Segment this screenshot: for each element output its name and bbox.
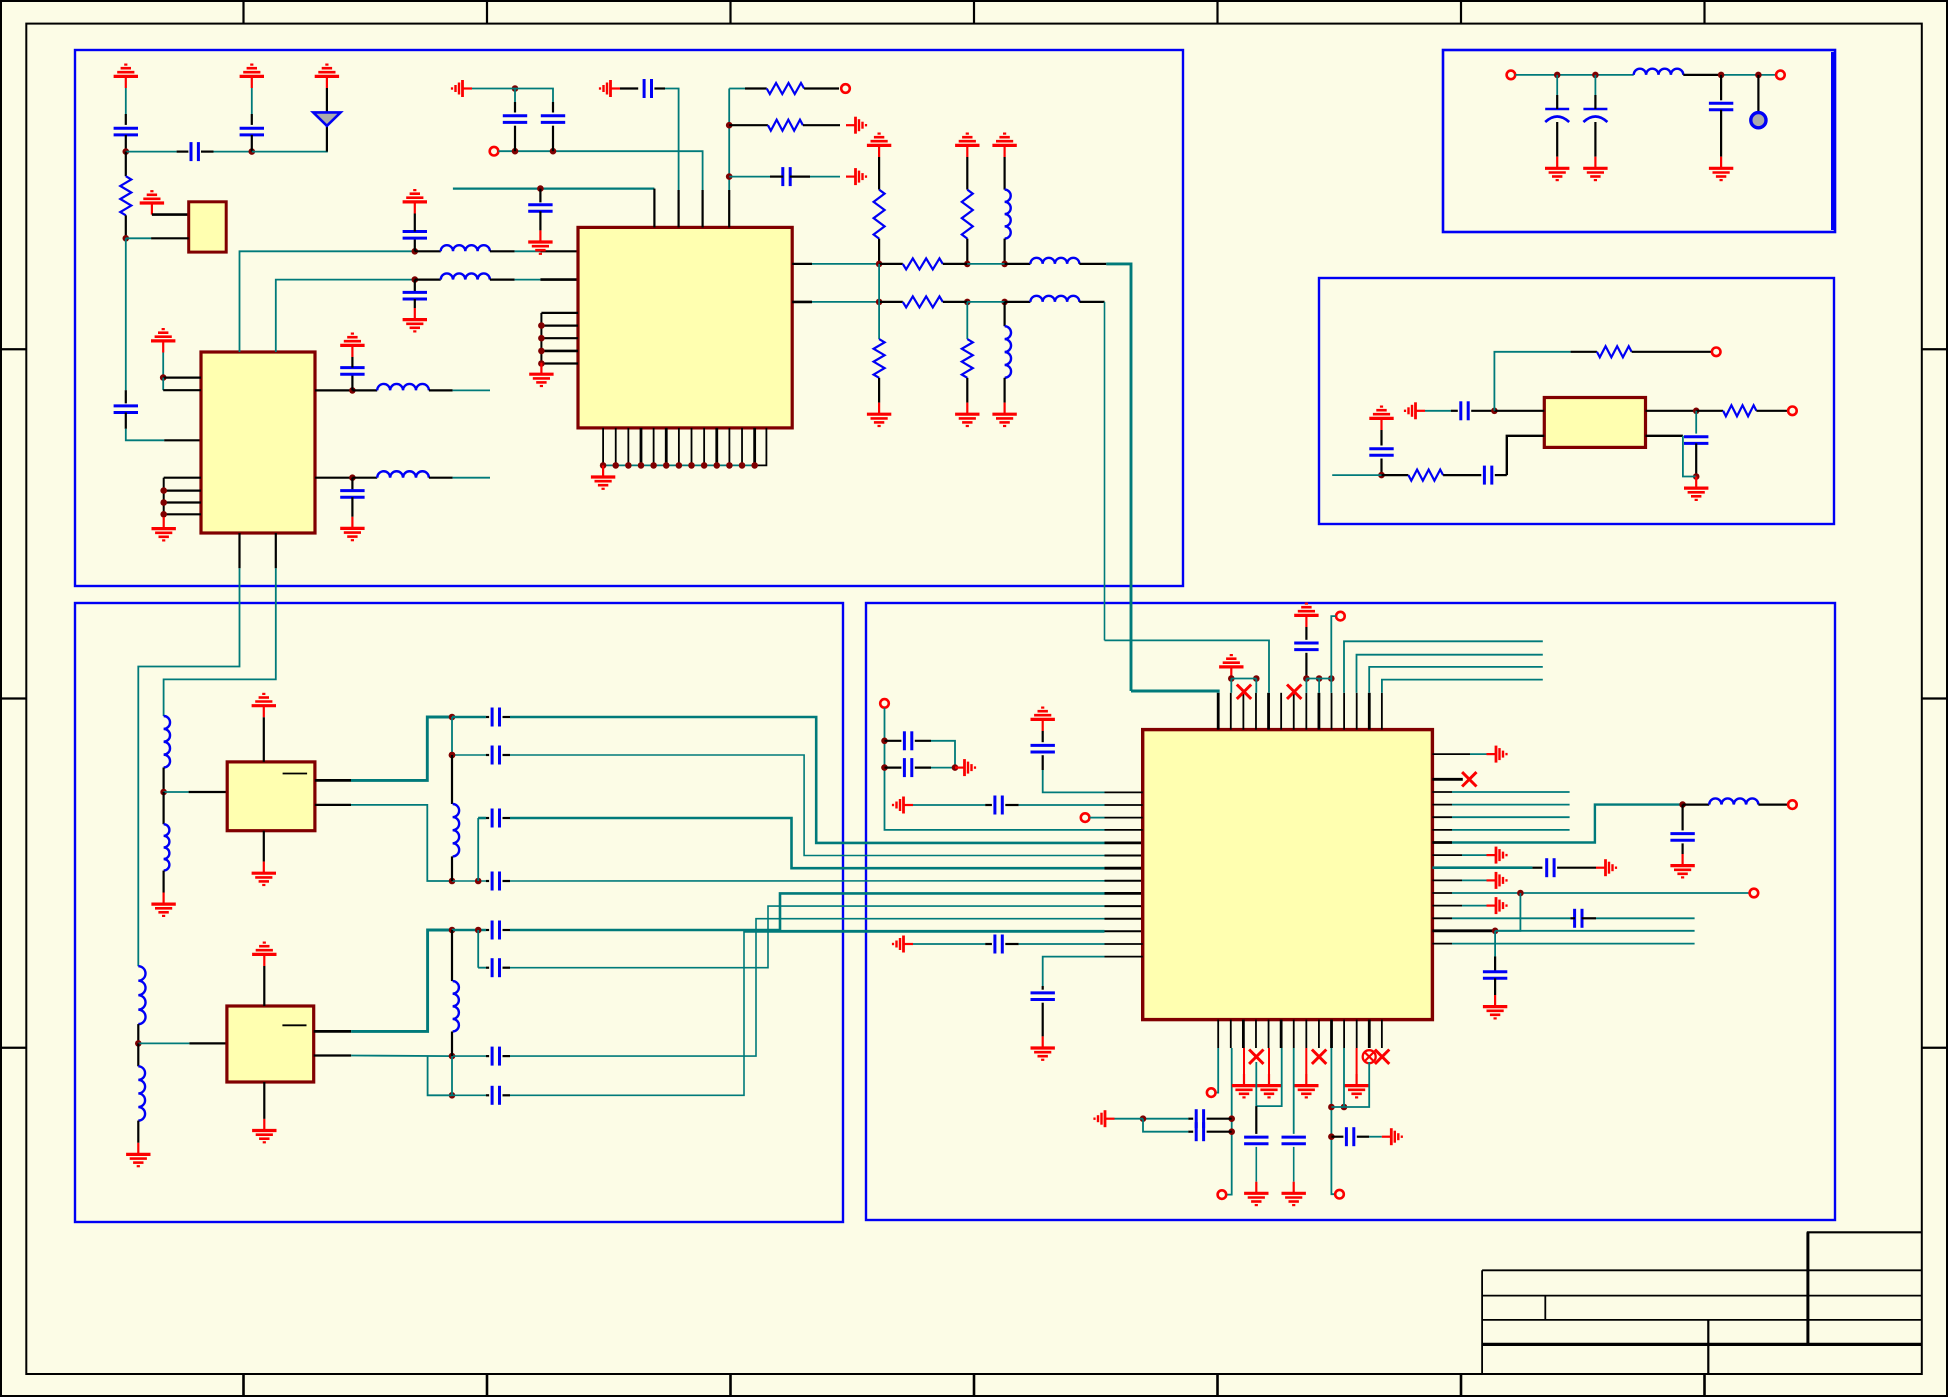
junction node N1 — [123, 148, 130, 155]
lead U7 bottom pin 8 — [1305, 1020, 1307, 1048]
resistor R1 — [120, 176, 131, 215]
lead U7 right pin y792 — [1432, 791, 1452, 793]
lead C26 bottom — [1681, 843, 1683, 854]
port BUF OUT1 — [1712, 348, 1721, 357]
border tick bottom 1 — [242, 1374, 245, 1397]
inductor L2 — [377, 471, 429, 477]
lead R1 top — [125, 152, 127, 177]
junction node N15 — [876, 261, 883, 268]
wire gnd stem bottom pin12 — [1356, 1048, 1358, 1074]
capacitor row C — [492, 872, 499, 891]
earth ground G15 — [1382, 1128, 1402, 1145]
power port P12 VCC — [1294, 604, 1318, 627]
wire stub right pin 4 — [1452, 804, 1570, 806]
inductor L10 (vertical) — [164, 716, 170, 768]
earth ground G7 — [955, 759, 975, 776]
lead C28 left — [1570, 917, 1575, 919]
junction node N10 — [512, 148, 519, 155]
wire dot c down — [1305, 679, 1307, 693]
border tick top 2 — [486, 0, 488, 24]
wire C34 to gnd — [1369, 1136, 1382, 1138]
lead C14 top — [1720, 75, 1722, 100]
IC U4 (buffer amp) — [1544, 398, 1645, 448]
lead C24 left — [985, 943, 992, 945]
lead U7 right pin 13 — [1432, 917, 1452, 919]
wire pin11 down — [1343, 1048, 1345, 1107]
junction row A — [449, 714, 456, 721]
earth ground G8 — [893, 936, 913, 953]
lead U3 pin T1 — [653, 189, 655, 228]
border tick bottom 4 — [973, 1374, 976, 1397]
lead U5 pin R1 — [315, 779, 351, 782]
lead Cpol 1595.4 top — [1594, 95, 1596, 109]
resistor R2 — [767, 83, 804, 94]
wire VCC stem to C1 — [125, 88, 127, 114]
power port VCC col 967.3 — [955, 134, 979, 157]
no-connect X U7 bottom pin4 — [1249, 1050, 1263, 1064]
capacitor C18 — [1684, 437, 1708, 444]
lead main IC pin left D — [1105, 892, 1143, 895]
port TEST1 — [841, 84, 850, 93]
junction row F — [449, 1092, 456, 1099]
no-connect X U7 right pin2 — [1462, 772, 1476, 786]
ground U3 left group — [529, 363, 553, 386]
wire row C to bundle — [510, 880, 1105, 882]
wire C28 stub — [1596, 917, 1695, 919]
capacitor C9 — [528, 205, 552, 212]
lead C24 right — [1005, 943, 1018, 945]
resistor col 967.3 lower — [962, 339, 973, 378]
ground at C32 — [1244, 1182, 1268, 1205]
border tick top 5 — [1216, 0, 1218, 24]
U6 internal pin overline — [282, 1024, 306, 1026]
lead Cpol 1557.2 top — [1556, 95, 1558, 109]
border tick right 1 — [1922, 348, 1948, 350]
capacitor C31 — [1196, 1122, 1203, 1141]
wire N4 down — [162, 378, 164, 391]
junction U3 bus dot 4 — [638, 462, 645, 469]
no-connect X U7 bottom pin9 — [1312, 1050, 1326, 1064]
wire right feed — [728, 89, 730, 191]
junction U3 bus dot 1 — [600, 462, 607, 469]
lead R1 bottom — [125, 215, 127, 238]
ground at C9 — [528, 230, 552, 253]
lead C14 bottom — [1720, 110, 1722, 157]
capacitor row H — [492, 958, 499, 977]
wire pin10 down — [1331, 1048, 1335, 1194]
wire top-right step 2 — [1357, 655, 1543, 693]
title block right thick edge — [1806, 1232, 1809, 1344]
resistor col 879.1 upper — [874, 190, 885, 239]
wire row2 to main IC — [1104, 302, 1106, 641]
ground at C29 — [1483, 995, 1507, 1018]
wire pin r13 to C28 — [1452, 917, 1570, 919]
lead L4 right — [490, 279, 515, 281]
lead cap row G left — [486, 817, 489, 819]
capacitor C13 — [783, 167, 790, 186]
lead R7 right — [1443, 474, 1481, 476]
wire pin r1 gnd — [1470, 753, 1487, 755]
junction node N26 — [1378, 472, 1385, 479]
wire thick feed to U7 pin1 — [1131, 691, 1218, 693]
lead cap row D right — [503, 929, 511, 931]
lead U3 pin L1 — [540, 250, 578, 252]
port ANT OUT — [1776, 71, 1785, 80]
port CLK — [1336, 612, 1345, 621]
ground U7 bottom pin3 — [1232, 1074, 1256, 1097]
junction U3 tie dot 4 — [538, 360, 545, 367]
border tick left 2 — [0, 697, 26, 699]
wire U2 B1 to L-chain — [138, 568, 239, 966]
inductor L7 — [1030, 296, 1079, 302]
capacitor C10 — [503, 116, 527, 123]
lead col 967 to row1 — [966, 239, 968, 264]
lead U5 top pin — [263, 717, 265, 762]
lead cap row F left — [486, 1094, 489, 1096]
lead C1 top — [125, 114, 127, 125]
lead cap row H right — [503, 967, 511, 969]
wire row G drop — [477, 818, 479, 881]
lead C3 left — [177, 151, 189, 153]
lead U3 pin T3 — [701, 190, 703, 227]
lead C4 bottom — [125, 413, 127, 429]
power port P5 VCC — [151, 329, 175, 352]
block box top-left (RF front end) — [75, 50, 1183, 586]
border tick bottom 7 — [1703, 1374, 1706, 1397]
wire N3 to U1 pin 2 — [126, 237, 151, 239]
lead C13 left — [770, 176, 783, 178]
earth ground G6 — [893, 797, 913, 814]
wire top-right step 1 — [1344, 641, 1543, 693]
capacitor row B — [492, 746, 499, 765]
lead U3 bottom pin 1 — [602, 428, 604, 466]
junction U3 bus dot 2 — [612, 462, 619, 469]
capacitor C16 — [1369, 449, 1393, 456]
power port P1 VCC — [114, 65, 138, 88]
port RST — [1081, 813, 1090, 822]
inductor L5 (vertical) — [1005, 190, 1011, 239]
lead cap row A left — [486, 716, 489, 718]
power port P4 (bias) — [140, 191, 164, 214]
port ANT IN — [1507, 71, 1516, 80]
wire U2 pin T1 to row — [240, 251, 415, 352]
lead L7 left — [1005, 301, 1031, 303]
lead L9 right — [1683, 74, 1721, 76]
lead U1 pin 1 — [152, 213, 189, 216]
junction node N35 — [1517, 890, 1524, 897]
inductor L3 — [441, 245, 490, 251]
title block cell divider v2 — [1544, 1296, 1546, 1320]
lead L3 right — [490, 250, 515, 252]
junction U7 top dot e — [1328, 675, 1335, 682]
lead U7 top pin 10 — [1331, 693, 1333, 730]
lead C33 bottom — [1293, 1147, 1295, 1182]
wire row B to cap — [452, 754, 486, 756]
lead L2 right — [429, 477, 453, 479]
lead U7 right pin 11 — [1432, 892, 1452, 894]
capacitor C19 — [1294, 643, 1318, 650]
lead diode D1 top — [326, 88, 328, 112]
lead U7 right pin 2 — [1432, 778, 1462, 781]
resistor R4 — [903, 258, 943, 269]
lead U7 right pin y817.2 — [1432, 816, 1452, 818]
earth ground G10 — [1487, 847, 1507, 864]
junction U3 tie dot 3 — [538, 348, 545, 355]
wire col 879.1 row to lower R — [878, 264, 880, 339]
wire port row — [499, 151, 703, 190]
no-connect X U7 top pin3 — [1237, 685, 1251, 699]
lead U7 bottom pin 1 — [1217, 1020, 1219, 1048]
ground ant filter 1595.4 — [1583, 157, 1607, 180]
lead R4 right — [943, 263, 968, 265]
lead L1 left — [352, 389, 377, 391]
capacitor C11 — [541, 116, 565, 123]
power port P2 VCC — [240, 65, 264, 88]
power port P13 VCC — [1031, 708, 1055, 731]
port SENSE1 — [1207, 1088, 1216, 1097]
lead U3 bottom pin 7 — [678, 428, 680, 466]
lead C2 bottom — [251, 135, 253, 152]
power port P10 VCC — [252, 943, 276, 966]
wire U3 R1 to N15 — [812, 263, 879, 265]
lead U7 bottom pin 6 — [1280, 1020, 1283, 1048]
lead L10 bottom — [163, 768, 165, 793]
wire U4 pin4 to N28 — [1683, 436, 1696, 477]
lead C6 top — [351, 478, 353, 491]
wire G5 to C15 — [1425, 410, 1451, 412]
wire row D to cap — [452, 929, 486, 932]
wire row H to cap — [478, 967, 486, 969]
lead U3 bottom pin 6 — [665, 428, 668, 466]
lead U7 bottom pin 7 — [1293, 1020, 1295, 1048]
wire U5 R1 to row A — [351, 717, 452, 780]
capacitor C29 — [1483, 972, 1507, 979]
earth ground G9 — [1487, 746, 1507, 763]
lead C16 bottom — [1380, 459, 1382, 476]
port BUF OUT2 — [1788, 407, 1797, 416]
IC U1 (bias regulator) — [189, 202, 227, 252]
wire left rail N3 down — [125, 238, 127, 390]
ground L11 — [151, 893, 175, 916]
lead U3 bottom pin 2 — [615, 428, 617, 466]
lead U7 bottom pin 12 — [1356, 1020, 1358, 1048]
wire C23 right tie — [931, 767, 955, 769]
lead col 967.3 gnd — [966, 378, 968, 403]
lead U7 bottom pin 3 — [1242, 1020, 1245, 1048]
lead U3 pin T2 — [677, 190, 679, 227]
wire C25 to U7 pin — [1043, 957, 1105, 986]
wire U3 bottom bus corner — [755, 428, 767, 466]
wire N14 to C13 — [729, 176, 770, 178]
wire N25 up and to R6 — [1494, 352, 1570, 411]
lead cap row C right — [503, 880, 511, 882]
wire port CLK to dot e — [1331, 616, 1336, 678]
lead C11 top — [552, 102, 554, 113]
lead U3 pin L3 — [541, 312, 578, 314]
lead C21 right — [1005, 804, 1018, 806]
lead U3 pin L2 — [540, 278, 578, 281]
lead cap row D left — [486, 929, 489, 931]
lead R2 right — [804, 87, 839, 89]
inductor L6 — [1030, 258, 1079, 264]
capacitor C28 — [1575, 909, 1582, 928]
earth ground G11 — [1596, 859, 1616, 876]
lead U7 bottom pin 11 — [1343, 1020, 1345, 1048]
IC U5 (driver A) — [227, 762, 315, 831]
capacitor C8 — [403, 292, 427, 299]
wire N19-N20 — [967, 301, 1004, 303]
wire pins4-6 tie — [1255, 1062, 1257, 1106]
wire U6 R2 to row E — [351, 1055, 452, 1058]
inductor L11 (vertical) — [164, 824, 170, 870]
ground at C33 — [1282, 1182, 1306, 1205]
wire N17-N18 — [967, 263, 1004, 265]
lead C23 left — [885, 766, 902, 768]
lead U7 right pin 7 — [1432, 841, 1452, 844]
lead U3 bottom pin 13 — [753, 428, 756, 466]
junction node N31 — [881, 738, 888, 745]
lead C21 left — [985, 804, 992, 806]
wire row F to cap — [452, 1094, 486, 1096]
border tick bottom 6 — [1460, 1374, 1463, 1397]
lead U5 bottom pin — [263, 831, 265, 862]
junction node N2 — [249, 148, 256, 155]
lead C15 left — [1451, 410, 1458, 412]
junction node N4 — [160, 374, 167, 381]
wire stub right pin y829.9 — [1452, 829, 1570, 831]
capacitor row G — [492, 809, 499, 828]
block box bottom-left (driver stages) — [75, 603, 843, 1222]
lead R4 left — [879, 263, 903, 265]
wire stub right pin y792 — [1452, 791, 1570, 793]
lead C2 top — [251, 114, 253, 125]
lead U3 bottom pin 8 — [691, 428, 693, 466]
lead cap row B left — [486, 754, 489, 756]
lead U7 top pin 6 — [1280, 693, 1282, 730]
junction node N36 — [1492, 928, 1499, 935]
capacitor C34 — [1346, 1127, 1353, 1146]
lead main IC pin left G — [1105, 867, 1143, 870]
earth ground G14 — [1095, 1110, 1115, 1127]
inductor L8 (vertical) — [1005, 326, 1011, 378]
junction node N24 — [1755, 72, 1762, 79]
lead C34 left — [1331, 1136, 1343, 1138]
title block top-right cell — [1808, 1232, 1922, 1270]
wire row A to bundle — [510, 717, 1105, 843]
wire N1 to C3 — [126, 151, 177, 153]
lead R8 right — [1756, 410, 1788, 412]
lead R5 right — [943, 301, 968, 303]
lead U6 pin 1 — [189, 1042, 227, 1044]
junction node N17 — [964, 261, 971, 268]
junction node N11 — [550, 148, 557, 155]
U5 internal pin overline — [283, 773, 308, 775]
resistor R8 — [1723, 405, 1756, 416]
ground at C6 — [340, 517, 364, 540]
lead C15 right — [1471, 410, 1494, 412]
lead cap row E left — [486, 1055, 489, 1057]
block box mid-right (buffer) — [1319, 278, 1834, 524]
lead U7 top pin 13 — [1368, 693, 1371, 730]
title block row line 2 — [1482, 1295, 1922, 1297]
capacitor C32 — [1244, 1137, 1268, 1144]
port VIN — [880, 699, 889, 708]
capacitor C7 — [403, 232, 427, 239]
junction node N6 — [349, 474, 356, 481]
lead L11 top — [163, 792, 165, 824]
ground U7 bottom pin12 — [1344, 1074, 1368, 1097]
junction U7 top dot a — [1228, 675, 1235, 682]
lead L15 top — [451, 930, 453, 981]
lead U7 right pin 15 — [1432, 943, 1452, 945]
lead C31 right — [1207, 1131, 1232, 1133]
wire U2 B2 to L-chain — [164, 568, 276, 716]
ground U6 — [252, 1119, 276, 1142]
junction U3 bus dot 13 — [751, 462, 758, 469]
lead diode D1 bottom — [326, 126, 328, 152]
wire row A to cap — [452, 716, 486, 719]
lead U7 right pin 1 — [1432, 753, 1470, 755]
lead U3 bottom pin 3 — [627, 428, 629, 466]
lead R7 left — [1382, 474, 1409, 476]
lead U7 bottom pin 9 — [1318, 1020, 1320, 1048]
lead U7 top pin 9 — [1318, 693, 1321, 730]
lead U3 bottom pin 10 — [715, 428, 718, 466]
lead hole stem — [1757, 75, 1759, 112]
lead main IC pin left B — [1105, 855, 1143, 857]
lead L14 bottom — [451, 856, 453, 881]
wire C13 to gnd — [810, 176, 840, 178]
lead U2 pin 8 — [315, 389, 352, 391]
earth ground G4 — [846, 168, 866, 185]
lead col 879 to row1 — [878, 239, 880, 264]
lead C19 top — [1305, 627, 1307, 640]
lead L16 left — [1683, 803, 1710, 805]
capacitor row F — [492, 1086, 499, 1105]
junction node N29 — [160, 789, 167, 796]
lead R3 right — [803, 124, 840, 126]
earth ground G13 — [1487, 897, 1507, 914]
lead U7 left pin 14 — [1105, 956, 1143, 958]
lead U7 bottom pin 5 — [1268, 1020, 1270, 1048]
inductor L1 — [377, 384, 429, 390]
wire rows A-B tie — [451, 717, 453, 755]
junction node N41 — [1341, 1104, 1348, 1111]
wire rows E-F tie — [451, 1056, 453, 1095]
lead C12 left — [620, 87, 638, 89]
junction row D — [449, 927, 456, 934]
border tick right 3 — [1922, 1047, 1948, 1049]
junction U3 bus dot 11 — [726, 462, 733, 469]
lead U2 pin B1 — [238, 533, 240, 568]
lead C7 top — [414, 214, 416, 232]
ground U4 — [1684, 477, 1708, 500]
lead C8 bottom — [414, 299, 416, 308]
lead U2 pin 6 — [164, 501, 201, 503]
lead U2 pin 3 — [164, 439, 201, 441]
wire row H to bundle — [510, 906, 1105, 968]
lead R col 967.3 top — [966, 157, 968, 190]
wire pin r7 up to out row — [1452, 805, 1683, 843]
wire row G stub — [478, 817, 486, 819]
earth ground G1 — [452, 80, 472, 97]
lead U3 bottom pin 5 — [653, 428, 655, 466]
lead C7 bottom — [414, 238, 416, 251]
lead C34 right — [1357, 1136, 1369, 1138]
lead L4 left — [415, 279, 441, 281]
junction row D extra — [475, 927, 482, 934]
lead L11 bottom — [163, 871, 165, 893]
